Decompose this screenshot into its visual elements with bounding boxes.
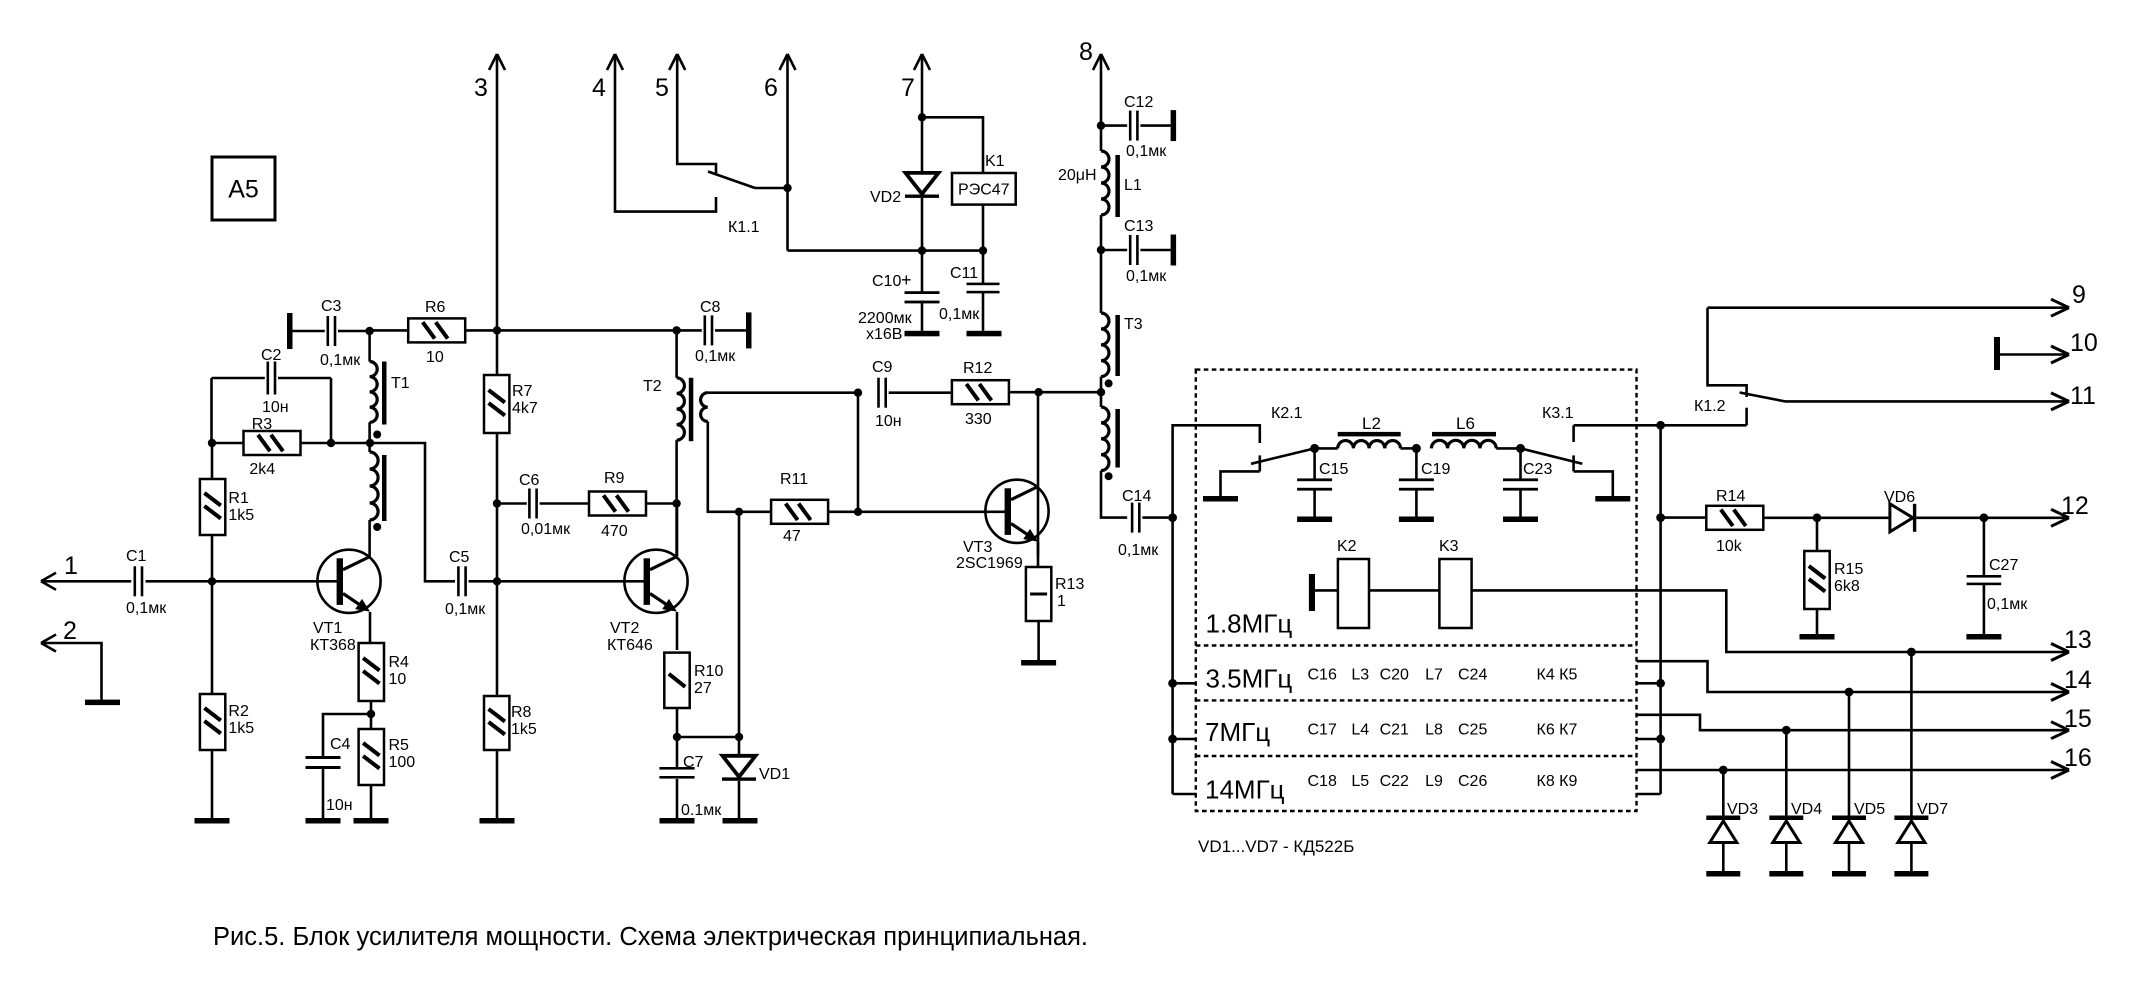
capacitor C8 bbox=[704, 315, 707, 345]
svg-text:47: 47 bbox=[783, 528, 801, 545]
wire node to L2 bbox=[1315, 447, 1338, 450]
transformer T1 core upper bbox=[382, 362, 387, 425]
stub 3.5MHz out bbox=[1637, 661, 2066, 692]
svg-text:К3.1: К3.1 bbox=[1542, 405, 1574, 422]
wire VT1 emitter bbox=[369, 612, 372, 643]
capacitor C7 bbox=[659, 767, 694, 770]
node VD1 bbox=[735, 733, 743, 741]
node C15/L2 bbox=[1310, 444, 1319, 453]
svg-text:R9: R9 bbox=[604, 470, 625, 487]
svg-text:10: 10 bbox=[2070, 329, 2098, 357]
transformer T1 core lower bbox=[382, 455, 387, 521]
node R14 bus bbox=[1656, 513, 1665, 522]
svg-text:9: 9 bbox=[2072, 281, 2086, 309]
stub 7MHz out bbox=[1637, 715, 2066, 730]
resistor R10 bbox=[664, 653, 689, 708]
svg-text:R5: R5 bbox=[389, 737, 410, 754]
transformer T3 core upper bbox=[1115, 315, 1120, 376]
transformer T3 core lower bbox=[1115, 409, 1120, 468]
svg-text:8: 8 bbox=[1079, 38, 1093, 66]
node VD4 line15 bbox=[1782, 726, 1791, 735]
wire VD1 node to R11 bbox=[739, 510, 771, 513]
wire 4 arrow bbox=[607, 54, 615, 70]
output 10 wire bbox=[2000, 353, 2066, 356]
resistor R6 bbox=[408, 318, 465, 342]
svg-text:4: 4 bbox=[592, 74, 606, 102]
band filter row divider 3 bbox=[1196, 755, 1637, 757]
svg-text:12: 12 bbox=[2061, 492, 2089, 520]
transformer T2 secondary winding bbox=[701, 393, 708, 422]
svg-text:L5: L5 bbox=[1351, 773, 1369, 790]
band filter row divider 1 bbox=[1196, 644, 1637, 646]
svg-text:K2: K2 bbox=[1337, 538, 1357, 555]
wire VD4 bottom bbox=[1785, 843, 1788, 872]
svg-text:L9: L9 bbox=[1425, 773, 1443, 790]
resistor R11 bbox=[771, 500, 828, 524]
inductor L1 core bbox=[1115, 155, 1120, 217]
svg-text:VT1: VT1 bbox=[313, 620, 342, 637]
wire K1 bottom bbox=[982, 205, 985, 251]
node bus 7MHz bbox=[1168, 735, 1177, 744]
node bus right 7MHz bbox=[1656, 735, 1665, 744]
svg-text:VD1: VD1 bbox=[759, 766, 790, 783]
svg-text:4k7: 4k7 bbox=[512, 400, 538, 417]
wire 7 arrow bbox=[914, 54, 922, 70]
wire T2 primary to R9 node bbox=[675, 440, 678, 503]
svg-text:VD6: VD6 bbox=[1884, 489, 1915, 506]
capacitor C1 bbox=[134, 566, 137, 596]
svg-text:C17: C17 bbox=[1308, 721, 1337, 738]
wire R5 to ground bbox=[370, 785, 373, 818]
wire VD7 bottom bbox=[1910, 843, 1913, 872]
relay K2 bbox=[1338, 559, 1369, 628]
wire bar to K2 bbox=[1315, 589, 1338, 592]
node C5 bbox=[493, 577, 501, 585]
wire C12 to ground bbox=[1140, 124, 1170, 127]
output 9 arrow bbox=[2051, 299, 2069, 308]
svg-text:R11: R11 bbox=[780, 471, 808, 488]
svg-text:1: 1 bbox=[64, 552, 78, 580]
svg-text:VT2: VT2 bbox=[610, 620, 639, 637]
transistor VT2 bbox=[624, 550, 687, 613]
node right bus top bbox=[1656, 421, 1665, 430]
svg-text:10н: 10н bbox=[326, 797, 353, 814]
capacitor C2 bbox=[267, 362, 270, 395]
transformer T3 upper winding bbox=[1101, 313, 1109, 377]
wire K3 to output 13 bbox=[1472, 590, 2066, 652]
output 10 arrow bbox=[2051, 346, 2069, 355]
svg-text:1.8МГц: 1.8МГц bbox=[1206, 609, 1293, 639]
wire C14 to bus node bbox=[1142, 516, 1172, 519]
diode VD4 bbox=[1785, 730, 1788, 815]
node R3 right bbox=[327, 439, 335, 447]
wire R6 to rail3 bbox=[465, 329, 497, 332]
wire R1 top bbox=[211, 443, 214, 479]
node K1.1/6 bbox=[783, 184, 791, 192]
ground R8 bbox=[480, 818, 515, 824]
capacitor bar VD4 bbox=[1769, 871, 1803, 877]
transformer T1 primary winding bbox=[368, 331, 371, 362]
svg-text:R6: R6 bbox=[425, 299, 446, 316]
svg-text:L4: L4 bbox=[1351, 721, 1369, 738]
wire R11 to node bbox=[828, 510, 858, 513]
relay K1 coil bbox=[952, 173, 1016, 205]
transformer T2 core bbox=[689, 378, 694, 441]
node R15 bbox=[1813, 513, 1822, 522]
svg-text:330: 330 bbox=[965, 411, 992, 428]
input 2 arrow bbox=[41, 635, 56, 644]
svg-text:0,1мк: 0,1мк bbox=[445, 601, 486, 618]
svg-text:7МГц: 7МГц bbox=[1205, 717, 1270, 747]
capacitor C3 bbox=[327, 316, 330, 346]
wire C14 bus up to K2.1 bbox=[1173, 425, 1260, 517]
wire C5 node to R8 bbox=[496, 581, 499, 696]
capacitor C23 bbox=[1519, 448, 1522, 480]
ground C15 bbox=[1297, 517, 1332, 523]
capacitor C10 bbox=[921, 251, 924, 292]
resistor R4 bbox=[359, 643, 384, 701]
output 13 arrow bbox=[2051, 644, 2069, 653]
svg-text:0,1мк: 0,1мк bbox=[1987, 596, 2028, 613]
ground C27 bbox=[1966, 634, 2001, 640]
node VD2 top bbox=[918, 113, 926, 121]
wire 5 arrow bbox=[669, 54, 677, 70]
svg-text:C5: C5 bbox=[449, 549, 470, 566]
wire C11 to ground bbox=[982, 291, 985, 331]
wire base node to VT1 bbox=[212, 580, 337, 583]
svg-text:1k5: 1k5 bbox=[511, 721, 537, 738]
resistor R3 bbox=[244, 431, 301, 455]
svg-text:0.1мк: 0.1мк bbox=[681, 802, 722, 819]
wire L6 to C23 node bbox=[1496, 447, 1520, 450]
svg-text:K1: K1 bbox=[985, 153, 1005, 170]
ground C23 bbox=[1503, 517, 1538, 523]
svg-text:27: 27 bbox=[694, 680, 712, 697]
wire R14 to R15 node bbox=[1764, 516, 1817, 519]
node VD5 line14 bbox=[1845, 688, 1854, 697]
resistor R7 bbox=[484, 375, 509, 433]
svg-text:7: 7 bbox=[901, 74, 915, 102]
ground C7 bbox=[660, 818, 695, 824]
capacitor C15 bbox=[1313, 448, 1316, 480]
wire C6 node to C5 node bbox=[496, 504, 499, 582]
wire VT2 emitter bbox=[676, 612, 679, 650]
diode VD2 bbox=[921, 117, 924, 173]
svg-text:10н: 10н bbox=[875, 413, 902, 430]
module designator A5 box bbox=[212, 157, 275, 220]
wire 4 bbox=[615, 54, 716, 212]
wire T1 mid bbox=[368, 422, 371, 443]
transformer T1 secondary winding bbox=[370, 452, 379, 520]
svg-text:10н: 10н bbox=[262, 399, 289, 416]
wire to T3 junction bbox=[1039, 391, 1101, 394]
wire T1 tap to C5 bbox=[370, 443, 455, 581]
wire R9 node to VT2 collector bbox=[675, 504, 678, 557]
wire L1 to C13 node bbox=[1100, 215, 1103, 250]
capacitor bar VD3 bbox=[1706, 871, 1740, 877]
ground C19 bbox=[1399, 517, 1434, 523]
resistor R5 bbox=[359, 729, 384, 785]
svg-text:2k4: 2k4 bbox=[249, 461, 275, 478]
wire input 2 bbox=[41, 643, 102, 700]
resistor R1 bbox=[200, 479, 225, 535]
wire gnd to C3 bbox=[293, 330, 325, 333]
wire R12 to VT3 collector node bbox=[1010, 391, 1039, 394]
wire C7 top bbox=[676, 737, 679, 769]
svg-text:10: 10 bbox=[389, 671, 407, 688]
wire VT3 collector bbox=[1037, 392, 1040, 556]
svg-text:C18: C18 bbox=[1308, 773, 1337, 790]
wire C2 right bbox=[278, 377, 331, 380]
svg-text:1: 1 bbox=[1057, 593, 1066, 610]
wire node to C8 bbox=[677, 329, 702, 332]
node R4/R5/C4 bbox=[367, 710, 375, 718]
wire T2 secondary bottom bbox=[708, 422, 739, 512]
wire 6 to C10 bbox=[788, 249, 984, 252]
svg-text:470: 470 bbox=[601, 523, 628, 540]
wire VD5 bottom bbox=[1848, 843, 1851, 872]
transistor VT1 bbox=[317, 550, 380, 613]
capacitor bar VD5 bbox=[1832, 871, 1866, 877]
ground C13 bbox=[1171, 235, 1177, 266]
band filter module dashed box bbox=[1196, 370, 1637, 811]
svg-text:+: + bbox=[901, 270, 912, 290]
svg-text:C27: C27 bbox=[1989, 557, 2018, 574]
svg-text:14МГц: 14МГц bbox=[1205, 775, 1285, 805]
svg-text:C9: C9 bbox=[872, 359, 893, 376]
svg-text:14: 14 bbox=[2064, 666, 2092, 694]
svg-text:C8: C8 bbox=[700, 299, 721, 316]
svg-text:Т3: Т3 bbox=[1124, 316, 1143, 333]
wire rail to R7 bbox=[496, 330, 499, 375]
svg-text:К6 К7: К6 К7 bbox=[1537, 721, 1578, 738]
wire input1 to C1 bbox=[41, 580, 131, 583]
resistor R8 bbox=[484, 696, 509, 750]
output 15 arrow bbox=[2051, 722, 2069, 731]
wire R2 to ground bbox=[211, 750, 214, 818]
node VT3 collector bbox=[1034, 388, 1042, 396]
svg-text:0,1мк: 0,1мк bbox=[1118, 542, 1159, 559]
transformer T1 secondary dot bbox=[373, 523, 381, 531]
svg-text:C11: C11 bbox=[950, 265, 978, 282]
svg-text:R13: R13 bbox=[1055, 576, 1084, 593]
wire C2 bracket right bbox=[330, 378, 333, 443]
diode VD7 bbox=[1910, 652, 1913, 816]
ground C10 bbox=[905, 331, 940, 337]
wire T1 to VT1 collector bbox=[368, 520, 371, 557]
transformer T3 lower dot bbox=[1105, 472, 1113, 480]
wire R4 to node bbox=[370, 701, 373, 729]
svg-text:R7: R7 bbox=[512, 383, 533, 400]
svg-text:C6: C6 bbox=[519, 472, 540, 489]
svg-text:C24: C24 bbox=[1458, 666, 1487, 683]
ground C3 bbox=[287, 313, 293, 349]
svg-text:6k8: 6k8 bbox=[1834, 578, 1860, 595]
svg-text:А5: А5 bbox=[228, 176, 259, 204]
capacitor C4 bbox=[306, 756, 341, 759]
wire C1 to node bbox=[146, 580, 212, 583]
wire node to R2 bbox=[211, 581, 214, 694]
diode VD5 bbox=[1848, 692, 1851, 816]
svg-text:К4 К5: К4 К5 bbox=[1537, 666, 1578, 683]
wire C13 to ground bbox=[1140, 249, 1170, 252]
wire 5 bbox=[677, 54, 716, 175]
svg-text:C20: C20 bbox=[1380, 666, 1409, 683]
wire right bus to K1.2 bbox=[1661, 424, 1747, 427]
capacitor bar VD7 bbox=[1894, 871, 1928, 877]
ground C12 bbox=[1171, 110, 1177, 141]
svg-text:13: 13 bbox=[2064, 626, 2092, 654]
node C9 bbox=[854, 389, 862, 397]
wire C9 branch bbox=[857, 393, 860, 512]
svg-text:L7: L7 bbox=[1425, 666, 1443, 683]
wire C2 left bbox=[212, 377, 265, 380]
wire VT2 collector bbox=[676, 504, 679, 557]
wire 6 vertical bbox=[786, 54, 789, 251]
node T1 tap bbox=[366, 439, 374, 447]
node C27 bbox=[1980, 513, 1989, 522]
wire 8 vertical bbox=[1100, 54, 1103, 126]
svg-text:C7: C7 bbox=[683, 754, 704, 771]
wire R15 top bbox=[1816, 518, 1819, 551]
svg-text:Т2: Т2 bbox=[643, 378, 662, 395]
node C14 bus bbox=[1168, 513, 1177, 522]
resistor R9 bbox=[589, 492, 646, 516]
wire T3 mid bbox=[1100, 377, 1103, 407]
resistor R14 bbox=[1706, 506, 1763, 530]
ground R13 bbox=[1021, 660, 1056, 666]
node C7 bbox=[673, 733, 681, 741]
wire to C13 bbox=[1101, 249, 1127, 252]
svg-text:1k5: 1k5 bbox=[228, 507, 254, 524]
node bus right 3.5MHz bbox=[1656, 679, 1665, 688]
ground C4 bbox=[306, 818, 341, 824]
stub bus 14MHz bbox=[1173, 793, 1197, 796]
wire R9 to T2 node bbox=[646, 502, 677, 505]
ground R15 bbox=[1800, 634, 1835, 640]
svg-text:C22: C22 bbox=[1380, 773, 1409, 790]
node C13 bbox=[1097, 246, 1105, 254]
wire node to VT3 base bbox=[858, 510, 1005, 513]
ground input 2 bbox=[85, 700, 120, 706]
node C19/L6 bbox=[1412, 444, 1421, 453]
wire C10 to ground bbox=[921, 301, 924, 331]
ground C11 bbox=[967, 331, 1002, 337]
node C6 bbox=[493, 499, 501, 507]
wire VD3 bottom bbox=[1722, 843, 1725, 872]
wire node to R3 bbox=[212, 442, 244, 445]
svg-text:VD4: VD4 bbox=[1791, 801, 1822, 818]
relay contact K3.1 bbox=[1521, 448, 1583, 463]
wire C4 to ground bbox=[322, 768, 325, 818]
diode VD3 bbox=[1722, 770, 1725, 816]
svg-text:х16В: х16В bbox=[866, 326, 902, 343]
svg-text:C21: C21 bbox=[1380, 721, 1409, 738]
diode VD1 bbox=[723, 756, 756, 777]
wire VD1 to ground bbox=[738, 781, 741, 818]
band filter row divider 2 bbox=[1196, 699, 1637, 701]
svg-text:2: 2 bbox=[63, 617, 77, 645]
capacitor C11 bbox=[982, 251, 985, 283]
wire 7 vertical bbox=[921, 54, 924, 117]
relay contact K1.1 bbox=[708, 172, 755, 189]
ground K3.1 bbox=[1595, 496, 1630, 502]
svg-text:R10: R10 bbox=[694, 663, 723, 680]
wire C7 to ground bbox=[676, 779, 679, 818]
output 9 wire bbox=[1708, 306, 2067, 309]
svg-text:11: 11 bbox=[2070, 382, 2096, 410]
wire R15 node to VD6 bbox=[1817, 516, 1890, 519]
stub 3.5MHz bus bbox=[1637, 682, 1661, 685]
node T3 junction bbox=[1097, 388, 1105, 396]
svg-text:Рис.5. Блок усилителя мощности: Рис.5. Блок усилителя мощности. Схема эл… bbox=[213, 923, 1088, 951]
svg-text:К1.2: К1.2 bbox=[1694, 398, 1726, 415]
resistor R12 bbox=[952, 380, 1009, 404]
output 16 arrow bbox=[2051, 762, 2069, 771]
node C11 top bbox=[979, 246, 987, 254]
svg-text:К8 К9: К8 К9 bbox=[1537, 773, 1578, 790]
svg-text:РЭС47: РЭС47 bbox=[958, 182, 1010, 199]
wire C9 to R12 bbox=[889, 391, 951, 394]
wire C6 to R9 bbox=[540, 502, 590, 505]
wire VD2 to node bbox=[921, 198, 924, 251]
wire T2 secondary top to C9 bbox=[708, 391, 858, 394]
wire right bus bbox=[1659, 425, 1662, 794]
wire bus to R14 bbox=[1661, 516, 1705, 519]
node R3 left bbox=[208, 439, 216, 447]
inductor L6 bbox=[1431, 440, 1496, 448]
wire R7 to C6 node bbox=[496, 433, 499, 504]
wire K2 to K3 bbox=[1369, 589, 1439, 592]
svg-text:16: 16 bbox=[2064, 744, 2092, 772]
svg-text:К1.1: К1.1 bbox=[728, 219, 760, 236]
svg-text:C19: C19 bbox=[1421, 461, 1450, 478]
capacitor C12 bbox=[1129, 111, 1132, 141]
svg-text:0,1мк: 0,1мк bbox=[1126, 268, 1167, 285]
svg-text:20μН: 20μН bbox=[1058, 167, 1097, 184]
capacitor C6 bbox=[528, 489, 531, 519]
svg-text:VT3: VT3 bbox=[963, 539, 992, 556]
stub bus 3.5MHz bbox=[1173, 682, 1197, 685]
capacitor C27 bbox=[1983, 518, 1986, 576]
wire bus down bbox=[1171, 518, 1174, 794]
svg-text:0,1мк: 0,1мк bbox=[320, 352, 361, 369]
wire C27 node to output 12 bbox=[1984, 516, 2066, 519]
node VD3 line16 bbox=[1719, 766, 1728, 775]
wire 7 to K1 top bbox=[922, 117, 983, 173]
svg-text:K3: K3 bbox=[1439, 538, 1459, 555]
svg-text:L3: L3 bbox=[1351, 666, 1369, 683]
svg-text:0,1мк: 0,1мк bbox=[939, 306, 980, 323]
relay contact K1.2 bbox=[1708, 308, 1747, 397]
input 1 arrow bbox=[41, 573, 56, 582]
wire VT3 emitter bbox=[1037, 542, 1040, 567]
node R9/T2 bbox=[672, 499, 680, 507]
wire K3.1 to right bus bbox=[1574, 424, 1661, 427]
svg-text:C4: C4 bbox=[330, 736, 351, 753]
svg-text:КТ646: КТ646 bbox=[607, 637, 653, 654]
diode VD6 bbox=[1890, 504, 1913, 532]
wire C5 to VT2 base bbox=[469, 580, 644, 583]
wire 8 arrow bbox=[1093, 54, 1101, 70]
stub bus 7MHz bbox=[1173, 738, 1197, 741]
relay contact K2.1 bbox=[1259, 455, 1262, 471]
capacitor C14 bbox=[1131, 503, 1134, 533]
wire C2 bracket left bbox=[210, 378, 213, 443]
svg-text:КТ368: КТ368 bbox=[310, 637, 356, 654]
capacitor C19 bbox=[1415, 448, 1418, 480]
svg-text:0,1мк: 0,1мк bbox=[695, 348, 736, 365]
